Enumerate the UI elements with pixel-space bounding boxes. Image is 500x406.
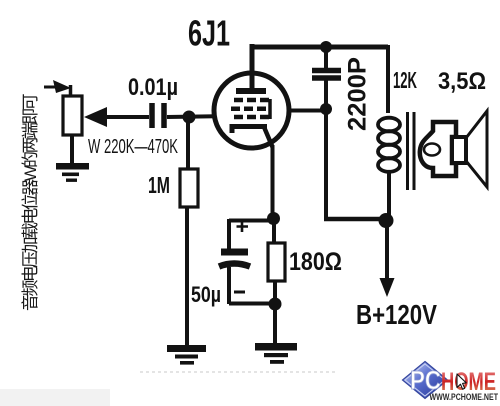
- svg-text:50µ: 50µ: [191, 282, 221, 307]
- svg-text:1M: 1M: [148, 172, 170, 198]
- svg-text:W 220K—470K: W 220K—470K: [88, 136, 178, 158]
- svg-text:0.01µ: 0.01µ: [128, 74, 178, 101]
- svg-text:PC: PC: [410, 365, 441, 395]
- svg-text:WWW.PCHOME.NET: WWW.PCHOME.NET: [430, 392, 499, 402]
- svg-text:180Ω: 180Ω: [289, 248, 342, 276]
- svg-text:B+120V: B+120V: [356, 299, 437, 330]
- svg-text:2200P: 2200P: [344, 57, 372, 131]
- svg-text:3,5Ω: 3,5Ω: [438, 68, 486, 95]
- svg-text:6J1: 6J1: [188, 13, 230, 54]
- svg-text:12K: 12K: [393, 67, 417, 93]
